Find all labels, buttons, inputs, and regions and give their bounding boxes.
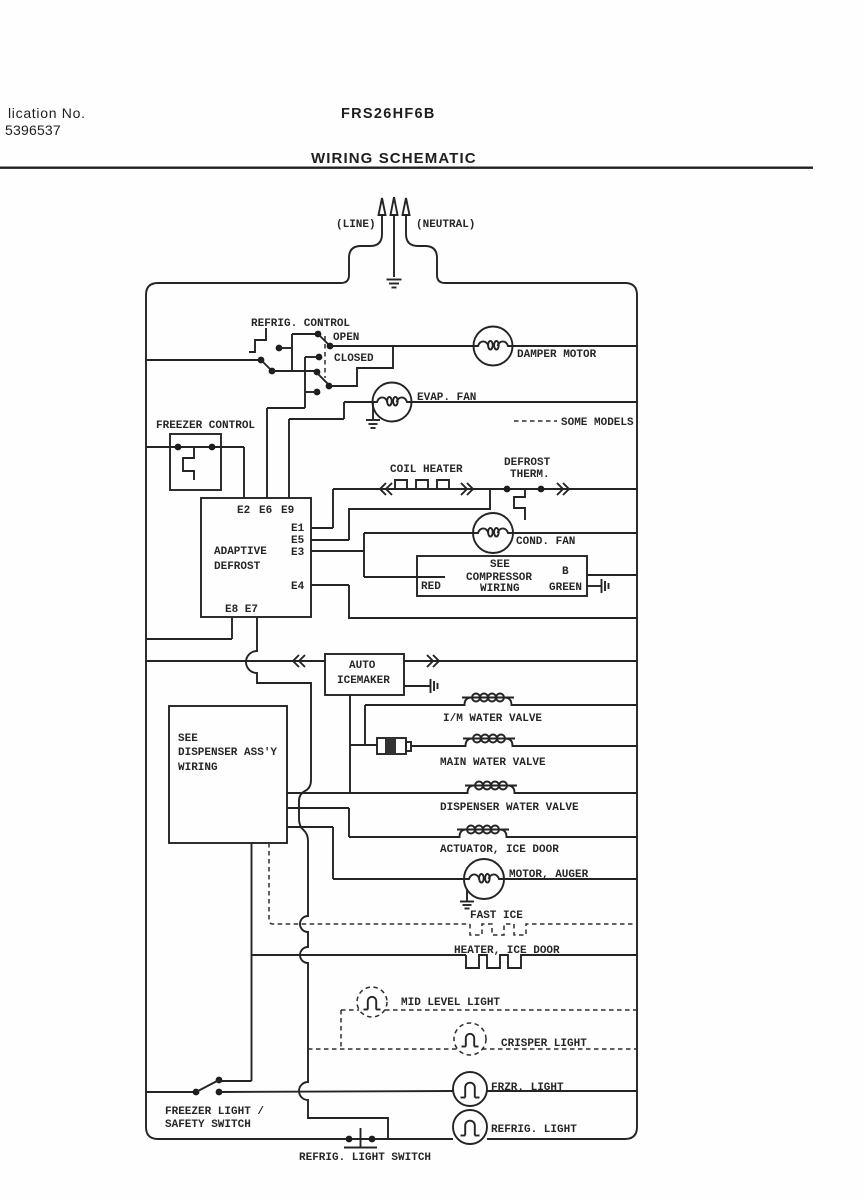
svg-text:E6: E6 bbox=[259, 505, 272, 517]
svg-text:E2: E2 bbox=[237, 505, 250, 517]
svg-text:SAFETY SWITCH: SAFETY SWITCH bbox=[165, 1119, 251, 1131]
svg-text:EVAP. FAN: EVAP. FAN bbox=[417, 392, 476, 404]
svg-text:MOTOR, AUGER: MOTOR, AUGER bbox=[509, 869, 589, 881]
svg-text:WIRING SCHEMATIC: WIRING SCHEMATIC bbox=[311, 150, 477, 167]
svg-text:ICEMAKER: ICEMAKER bbox=[337, 675, 390, 687]
svg-text:HEATER, ICE DOOR: HEATER, ICE DOOR bbox=[454, 945, 560, 957]
svg-text:FAST ICE: FAST ICE bbox=[470, 910, 523, 922]
svg-text:MAIN WATER VALVE: MAIN WATER VALVE bbox=[440, 757, 546, 769]
svg-text:DISPENSER ASS'Y: DISPENSER ASS'Y bbox=[178, 747, 277, 759]
svg-text:ADAPTIVE: ADAPTIVE bbox=[214, 546, 267, 558]
svg-text:B: B bbox=[562, 566, 569, 578]
svg-text:SEE: SEE bbox=[490, 559, 510, 571]
svg-text:RED: RED bbox=[421, 581, 441, 593]
svg-text:E3: E3 bbox=[291, 547, 305, 559]
svg-text:DISPENSER WATER VALVE: DISPENSER WATER VALVE bbox=[440, 802, 579, 814]
svg-text:I/M WATER VALVE: I/M WATER VALVE bbox=[443, 713, 542, 725]
svg-text:WIRING: WIRING bbox=[480, 583, 520, 595]
svg-text:(LINE): (LINE) bbox=[336, 219, 376, 231]
svg-text:SOME MODELS: SOME MODELS bbox=[561, 417, 634, 429]
svg-text:THERM.: THERM. bbox=[510, 469, 550, 481]
svg-text:lication No.: lication No. bbox=[8, 105, 86, 121]
svg-text:DEFROST: DEFROST bbox=[214, 561, 261, 573]
svg-text:OPEN: OPEN bbox=[333, 332, 359, 344]
svg-text:WIRING: WIRING bbox=[178, 762, 218, 774]
svg-text:CRISPER LIGHT: CRISPER LIGHT bbox=[501, 1038, 587, 1050]
svg-text:SEE: SEE bbox=[178, 733, 198, 745]
svg-text:AUTO: AUTO bbox=[349, 660, 376, 672]
svg-text:DEFROST: DEFROST bbox=[504, 457, 551, 469]
svg-text:E1: E1 bbox=[291, 523, 305, 535]
svg-text:FREEZER CONTROL: FREEZER CONTROL bbox=[156, 420, 255, 432]
svg-text:(NEUTRAL): (NEUTRAL) bbox=[416, 219, 475, 231]
svg-text:MID LEVEL LIGHT: MID LEVEL LIGHT bbox=[401, 997, 500, 1009]
svg-text:COIL HEATER: COIL HEATER bbox=[390, 464, 463, 476]
svg-text:5396537: 5396537 bbox=[5, 122, 61, 138]
svg-text:ACTUATOR, ICE DOOR: ACTUATOR, ICE DOOR bbox=[440, 844, 559, 856]
svg-text:E9: E9 bbox=[281, 505, 294, 517]
svg-text:REFRIG. LIGHT SWITCH: REFRIG. LIGHT SWITCH bbox=[299, 1152, 431, 1164]
svg-text:E4: E4 bbox=[291, 581, 305, 593]
svg-text:FRS26HF6B: FRS26HF6B bbox=[341, 106, 436, 122]
svg-text:E8 E7: E8 E7 bbox=[225, 604, 258, 616]
svg-text:REFRIG. LIGHT: REFRIG. LIGHT bbox=[491, 1124, 577, 1136]
svg-text:DAMPER MOTOR: DAMPER MOTOR bbox=[517, 349, 597, 361]
svg-text:FRZR. LIGHT: FRZR. LIGHT bbox=[491, 1082, 564, 1094]
svg-text:E5: E5 bbox=[291, 535, 305, 547]
svg-text:GREEN: GREEN bbox=[549, 582, 582, 594]
svg-text:FREEZER LIGHT /: FREEZER LIGHT / bbox=[165, 1106, 264, 1118]
svg-text:CLOSED: CLOSED bbox=[334, 353, 374, 365]
svg-text:COND. FAN: COND. FAN bbox=[516, 536, 575, 548]
